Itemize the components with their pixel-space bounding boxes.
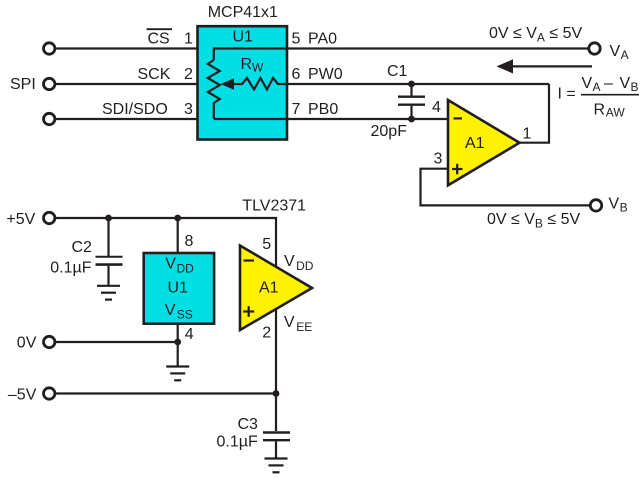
- svg-text:C2: C2: [72, 239, 93, 256]
- IC U1 MCP41x1 body: [198, 26, 288, 139]
- svg-text:0V: 0V: [17, 335, 37, 352]
- terminal VB: [590, 200, 601, 211]
- svg-text:20pF: 20pF: [371, 123, 408, 140]
- ground under C2: [97, 285, 120, 287]
- junction dot C1 bottom: [408, 116, 415, 123]
- svg-text:+5V: +5V: [6, 211, 35, 228]
- wire op-amp output: [519, 142, 550, 144]
- svg-text:U1: U1: [233, 29, 254, 46]
- plus sign A1 bottom: [243, 310, 254, 312]
- svg-text:4: 4: [432, 99, 441, 116]
- wire pin 8: [177, 218, 179, 253]
- ground under VSS: [166, 365, 189, 367]
- svg-text:C1: C1: [387, 63, 408, 80]
- svg-text:AW: AW: [606, 105, 626, 119]
- wire PW0 row: [288, 83, 549, 85]
- svg-text:R: R: [241, 56, 253, 73]
- wire +5V rail: [56, 218, 276, 266]
- svg-text:A1: A1: [465, 135, 485, 152]
- wire -5V rail: [56, 392, 276, 394]
- svg-text:1: 1: [184, 31, 193, 48]
- terminal 0V: [44, 336, 55, 347]
- svg-text:0.1µF: 0.1µF: [217, 434, 258, 451]
- junction dot pin4: [174, 339, 181, 346]
- svg-text:0V ≤ VB ≤ 5V: 0V ≤ VB ≤ 5V: [487, 211, 581, 231]
- junction dot C2: [105, 215, 112, 222]
- svg-text:SPI: SPI: [10, 76, 36, 93]
- overline over CS: [147, 28, 173, 30]
- svg-text:V: V: [610, 43, 621, 60]
- terminal +5V: [44, 212, 55, 223]
- wire VEE down: [275, 309, 277, 431]
- terminal VA: [589, 43, 600, 54]
- wire PB0 to op-amp inverting input: [288, 118, 449, 120]
- svg-text:SDI/SDO: SDI/SDO: [102, 101, 168, 118]
- svg-text:V: V: [165, 302, 176, 319]
- svg-text:W: W: [252, 60, 264, 74]
- svg-text:B: B: [620, 201, 628, 215]
- terminal CS: [44, 43, 55, 54]
- IC U1 supply body (bottom): [144, 253, 214, 324]
- svg-text:U1: U1: [168, 280, 189, 297]
- svg-text:TLV2371: TLV2371: [242, 197, 306, 214]
- svg-text:4: 4: [185, 326, 194, 343]
- svg-text:1: 1: [523, 126, 532, 143]
- svg-text:5: 5: [262, 236, 271, 253]
- svg-text:B: B: [631, 80, 639, 94]
- svg-text:DD: DD: [296, 259, 314, 273]
- capacitor C2: [107, 218, 109, 256]
- wire PA0 inner segment: [214, 49, 288, 61]
- svg-text:R: R: [594, 102, 606, 119]
- svg-text:V: V: [284, 314, 295, 331]
- svg-text:PA0: PA0: [308, 31, 337, 48]
- resistor RW horizontal zigzag (wiper): [233, 78, 288, 90]
- svg-text:8: 8: [185, 233, 194, 250]
- wire SCK (pin 2): [55, 83, 198, 85]
- svg-text:CS: CS: [148, 31, 170, 48]
- capacitor C1: [410, 84, 412, 96]
- svg-text:0V ≤ VA ≤ 5V: 0V ≤ VA ≤ 5V: [489, 25, 583, 45]
- wire CS (pin 1): [55, 47, 198, 49]
- capacitor C3: [263, 431, 290, 433]
- svg-text:V: V: [582, 75, 593, 92]
- wire 0V rail: [56, 341, 178, 343]
- current direction arrow line: [511, 65, 592, 67]
- current direction arrowhead: [497, 59, 514, 73]
- resistor pot element (vertical zigzag): [208, 60, 220, 119]
- wire PB0 inner segment: [214, 118, 288, 120]
- svg-text:3: 3: [184, 101, 193, 118]
- svg-text:PW0: PW0: [308, 66, 343, 83]
- minus sign A1: [454, 117, 463, 119]
- svg-text:SCK: SCK: [138, 66, 171, 83]
- wire non-inverting input: [421, 169, 590, 206]
- svg-text:SS: SS: [177, 308, 193, 322]
- terminal SDI/SDO: [44, 113, 55, 124]
- svg-text:–5V: –5V: [8, 386, 37, 403]
- junction dot -5V/C3: [273, 390, 280, 397]
- wire SDI/SDO (pin 3): [55, 118, 198, 120]
- svg-text:V: V: [620, 75, 631, 92]
- svg-text:6: 6: [292, 66, 301, 83]
- op-amp A1 (bottom): [240, 246, 312, 331]
- svg-text:V: V: [609, 196, 620, 213]
- wire feedback vertical: [548, 84, 550, 143]
- svg-text:DD: DD: [177, 261, 195, 275]
- plus sign A1: [452, 168, 463, 170]
- minus sign A1 bottom: [244, 259, 255, 261]
- svg-text:–: –: [604, 75, 613, 92]
- svg-text:I =: I =: [558, 85, 576, 102]
- ground under C3: [265, 457, 288, 459]
- terminal SCK: [44, 78, 55, 89]
- wire pin 4 to ground: [177, 324, 179, 366]
- wire PA0 to VA: [288, 47, 589, 49]
- svg-text:5: 5: [292, 31, 301, 48]
- svg-text:V: V: [165, 256, 176, 273]
- svg-text:2: 2: [262, 325, 271, 342]
- svg-text:MCP41x1: MCP41x1: [208, 4, 278, 21]
- op-amp A1 (top): [448, 100, 520, 185]
- svg-text:7: 7: [292, 101, 301, 118]
- terminal -5V: [44, 388, 55, 399]
- junction dot pin8: [174, 215, 181, 222]
- svg-text:A: A: [621, 48, 629, 62]
- svg-text:A: A: [593, 80, 601, 94]
- junction dot C1 top: [408, 81, 415, 88]
- svg-text:V: V: [284, 253, 295, 270]
- wiper arrow: [221, 78, 235, 90]
- svg-text:2: 2: [184, 66, 193, 83]
- svg-text:C3: C3: [238, 416, 259, 433]
- svg-text:EE: EE: [296, 320, 312, 334]
- svg-text:3: 3: [434, 151, 443, 168]
- svg-text:PB0: PB0: [308, 101, 338, 118]
- svg-text:0.1µF: 0.1µF: [50, 260, 91, 277]
- svg-text:A1: A1: [259, 280, 279, 297]
